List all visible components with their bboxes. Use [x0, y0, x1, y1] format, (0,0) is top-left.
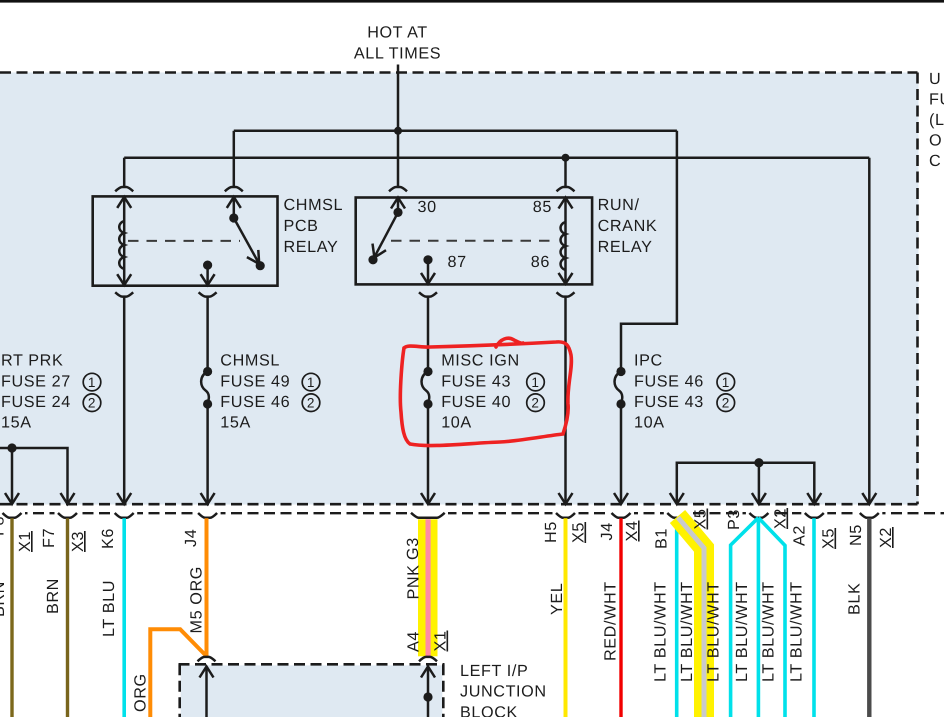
svg-text:LT BLU/WHT: LT BLU/WHT — [678, 581, 696, 682]
svg-text:30: 30 — [418, 198, 437, 216]
wire: IPC fuse to connector J4 (RED/WHT) — [620, 404, 623, 503]
wire: BLK from N5/X2 — [867, 518, 871, 717]
svg-text:FUSE 46: FUSE 46 — [220, 393, 290, 411]
junction: distribution bus center tap — [754, 458, 763, 467]
connector cup: J4 pin — [198, 513, 217, 518]
wire: CHMSL relay output to CHMSL fuse — [206, 297, 209, 372]
wire: drop to CHMSL relay contact pin — [233, 131, 236, 187]
svg-text:RED/WHT: RED/WHT — [602, 581, 620, 661]
svg-text:X2: X2 — [772, 508, 790, 529]
wire: center drop to connector P3 — [758, 463, 761, 503]
svg-text:X1: X1 — [432, 631, 450, 652]
junction: battery feed on upper bus — [394, 127, 402, 135]
connector cup: P3/X2 pin — [749, 513, 768, 518]
wire: RED/WHT from J4/X4 — [619, 518, 622, 717]
wire: drop to CHMSL relay coil — [123, 158, 126, 187]
svg-text:X5: X5 — [820, 528, 838, 549]
svg-text:RELAY: RELAY — [284, 238, 339, 256]
junction: RT PRK split — [7, 443, 16, 452]
svg-text:1: 1 — [531, 375, 539, 390]
svg-text:BRN: BRN — [44, 578, 62, 614]
svg-text:BLOCK: BLOCK — [460, 704, 518, 717]
relay U1 contact arm (pin in, movable contact) — [227, 196, 260, 265]
svg-text:LEFT I/P: LEFT I/P — [460, 662, 528, 680]
connector cup: X1 pin — [3, 513, 22, 518]
LEFT I/P JUNCTION BLOCK (dashed box, blue) — [179, 664, 445, 717]
svg-text:FUSE 24: FUSE 24 — [1, 393, 71, 411]
connector cup: RUN/CRANK relay pin 85 top — [557, 187, 575, 191]
junction block name text — [460, 662, 547, 717]
svg-text:LT BLU/WHT: LT BLU/WHT — [705, 581, 723, 682]
connector cup: G3 pin — [411, 513, 445, 518]
svg-text:P3: P3 — [725, 509, 743, 530]
fuse label: MISC IGN FUSE 43 / FUSE 40 10A — [441, 352, 520, 432]
relay U2 RUN/CRANK RELAY box — [356, 198, 592, 285]
svg-text:15A: 15A — [1, 414, 32, 432]
svg-text:J4: J4 — [598, 522, 616, 540]
svg-text:CRANK: CRANK — [598, 217, 658, 235]
arrow: ORG wire entering junction block — [200, 667, 214, 717]
wire: RUN/CRANK pin 87 to MISC IGN fuse — [427, 297, 430, 372]
svg-text:FUSE 46: FUSE 46 — [634, 373, 704, 391]
wire: lower feed bus (relay coils and BLK output) — [124, 156, 869, 159]
connector cup: N5/X2 pin — [860, 513, 879, 518]
connector cup: CHMSL relay contact top — [225, 187, 243, 191]
wire: RT PRK branch to connector X1 — [11, 448, 14, 503]
arrows: wires leaving fuse block at bottom border — [5, 493, 876, 504]
svg-text:F8: F8 — [0, 516, 8, 536]
wire color labels (rotated) — [0, 564, 864, 712]
junction: PNK circuit node inside junction block — [423, 692, 432, 701]
connector cup: H5/X5 pin — [556, 513, 575, 518]
svg-text:G3: G3 — [404, 537, 422, 560]
wire: CHMSL relay coil to connector K6 — [123, 297, 126, 503]
svg-text:X4: X4 — [623, 521, 641, 542]
svg-text:ALL TIMES: ALL TIMES — [354, 45, 441, 63]
annotation: red circled MISC IGN fuse — [400, 338, 571, 445]
fuse label: IPC FUSE 46 / FUSE 43 10A — [634, 352, 704, 432]
svg-text:M5 ORG: M5 ORG — [188, 566, 206, 633]
svg-text:J4: J4 — [182, 529, 200, 547]
svg-text:IPC: IPC — [634, 352, 663, 370]
svg-text:X2: X2 — [877, 527, 895, 548]
svg-text:LT BLU/WHT: LT BLU/WHT — [788, 581, 806, 682]
connector cup: A2/X5 pin — [805, 513, 824, 518]
wire: upper feed bus (to relay contacts and IPC fuse) — [234, 130, 677, 133]
svg-text:RT PRK: RT PRK — [1, 352, 63, 370]
svg-text:PCB: PCB — [284, 217, 319, 235]
svg-text:K6: K6 — [99, 528, 117, 549]
relay U1 CHMSL PCB RELAY box — [93, 196, 278, 285]
wire: lower bus down to BLK connector N5 — [868, 158, 871, 503]
svg-text:X5: X5 — [692, 509, 710, 530]
wire: M5 ORG from J4 — [205, 518, 209, 656]
wire: PNK from G3 (yellow highlighted) — [418, 519, 438, 656]
svg-text:CHMSL: CHMSL — [284, 196, 344, 214]
svg-text:ORG: ORG — [132, 673, 150, 712]
svg-text:YEL: YEL — [548, 583, 566, 615]
svg-text:H5: H5 — [542, 521, 560, 543]
svg-text:2: 2 — [531, 396, 539, 411]
connector cup: RUN/CRANK pin 86 bottom — [557, 292, 575, 296]
svg-text:FUSE 40: FUSE 40 — [441, 393, 511, 411]
svg-text:CHMSL: CHMSL — [220, 352, 280, 370]
relay U2 name text — [598, 196, 658, 256]
wire: LT BLU/WHT from A2/X5 — [812, 518, 816, 717]
wire: MISC IGN fuse to connector G3 — [427, 404, 430, 503]
fuse F46 IPC symbol — [615, 367, 626, 409]
svg-text:FUSE 43: FUSE 43 — [634, 393, 704, 411]
svg-text:X1: X1 — [16, 531, 34, 552]
svg-text:U: U — [929, 70, 941, 88]
svg-text:BRN: BRN — [0, 581, 8, 617]
svg-text:RELAY: RELAY — [598, 238, 653, 256]
svg-text:BLK: BLK — [846, 583, 864, 615]
connector cup: CHMSL relay output bottom — [199, 292, 217, 296]
wire: LT BLU/WHT from B1/X5 (straight) — [675, 518, 679, 717]
svg-text:10A: 10A — [441, 414, 472, 432]
wire: LT BLU/WHT from P3/X2 (left branch) — [731, 518, 759, 717]
svg-text:FUSE 27: FUSE 27 — [1, 373, 71, 391]
svg-text:C: C — [929, 152, 941, 170]
harness connector face dashed line — [0, 512, 944, 514]
fuse label: RT PRK FUSE 27 / FUSE 24 15A (fuse off frame left) — [1, 352, 71, 432]
svg-text:PNK: PNK — [405, 564, 423, 599]
svg-text:X3: X3 — [69, 531, 87, 552]
svg-text:FU: FU — [929, 91, 944, 109]
wire: drop to RUN/CRANK relay pin 30 — [397, 131, 400, 187]
wire: YEL from H5/X5 — [564, 518, 568, 717]
wire: feed to IPC fuse — [621, 131, 677, 372]
relay U1 internal dashed divider — [128, 240, 240, 242]
svg-text:RUN/: RUN/ — [598, 196, 640, 214]
svg-text:JUNCTION: JUNCTION — [460, 683, 547, 701]
wire: distribution bus to LT BLU/WHT connectors — [677, 463, 815, 503]
arrow: PNK wire entering junction block — [421, 667, 435, 717]
junction: RUN/CRANK coil tap on lower bus — [562, 154, 570, 162]
relay U1 output pin (fixed contact) — [201, 265, 215, 286]
fuse label: CHMSL FUSE 49 / FUSE 46 15A — [220, 352, 290, 432]
relay U1 name text — [284, 196, 344, 256]
svg-text:2: 2 — [88, 396, 96, 411]
svg-text:1: 1 — [307, 375, 315, 390]
svg-text:1: 1 — [722, 375, 730, 390]
pin and connector ID labels (rotated) — [0, 508, 895, 560]
connector cup: RUN/CRANK relay pin 30 top — [389, 187, 407, 191]
relay U2 pin 87 output — [421, 260, 435, 285]
wire: LT BLU/WHT from P3/X2 (right branch) — [758, 518, 785, 717]
relay U2 contact arm pin 30 — [373, 198, 406, 260]
wire: BRN to X1 (dark yellow-brown) — [10, 518, 13, 717]
connector cup: X3 pin — [58, 513, 77, 518]
connector cup: B1/X5 pin — [667, 513, 686, 518]
wire: ORG branch — [150, 629, 206, 717]
svg-text:10A: 10A — [634, 414, 665, 432]
wire: LT BLU from K6 — [122, 518, 126, 717]
fuse F49 CHMSL symbol — [201, 367, 212, 409]
wire: LT BLU/WHT from P3/X2 (center) — [757, 518, 761, 717]
connector cup: CHMSL relay coil bottom — [115, 292, 133, 296]
svg-text:HOT AT: HOT AT — [367, 24, 428, 42]
connector cup: PNK wire into junction block — [419, 657, 437, 661]
svg-text:X5: X5 — [570, 522, 588, 543]
connector cup: RUN/CRANK pin 87 bottom — [419, 292, 437, 296]
node: HOT AT ALL TIMES — [354, 24, 441, 63]
wire: RUN/CRANK pin 86 to connector H5 — [564, 297, 567, 503]
svg-text:MISC IGN: MISC IGN — [441, 352, 520, 370]
connector cup: K6 pin — [115, 513, 134, 518]
svg-text:(L: (L — [929, 111, 944, 129]
svg-text:86: 86 — [531, 253, 550, 271]
wire: CHMSL fuse to connector J4 — [206, 404, 209, 503]
svg-text:B1: B1 — [653, 528, 671, 549]
svg-text:FUSE 49: FUSE 49 — [220, 373, 290, 391]
connector cup: J4/X4 pin — [612, 513, 631, 518]
svg-text:N5: N5 — [847, 524, 865, 546]
fuse F43 MISC IGN symbol — [422, 367, 433, 409]
wire: RT PRK fuse output split — [0, 448, 68, 503]
svg-text:15A: 15A — [220, 414, 251, 432]
svg-text:LT BLU/WHT: LT BLU/WHT — [652, 581, 670, 682]
svg-text:LT BLU/WHT: LT BLU/WHT — [733, 581, 751, 682]
fuse block name text (clipped at right edge) — [929, 70, 944, 170]
svg-text:A2: A2 — [791, 525, 809, 546]
relay U2 internal dashed divider — [391, 240, 552, 242]
svg-text:FUSE 43: FUSE 43 — [441, 373, 511, 391]
wire: drop to RUN/CRANK relay pin 85 — [564, 158, 567, 187]
svg-text:2: 2 — [307, 396, 315, 411]
svg-text:F7: F7 — [40, 528, 58, 548]
svg-text:2: 2 — [722, 396, 730, 411]
svg-text:LT BLU: LT BLU — [100, 580, 118, 637]
relay U1 coil — [117, 196, 131, 285]
connector cup: CHMSL relay coil top — [115, 187, 133, 191]
svg-text:87: 87 — [448, 253, 467, 271]
wire: BRN to X3 — [66, 518, 69, 717]
underhood fuse block (dashed outline box, blue) — [0, 73, 919, 505]
svg-text:A4: A4 — [405, 631, 423, 652]
svg-text:LT BLU/WHT: LT BLU/WHT — [760, 581, 778, 682]
relay U2 pin number labels — [418, 198, 553, 271]
wire: battery feed from HOT AT ALL TIMES — [397, 65, 400, 131]
wire: LT BLU/WHT from B1/X5 (yellow highlighted branch) — [678, 517, 705, 717]
svg-text:1: 1 — [88, 375, 96, 390]
svg-text:O: O — [929, 132, 942, 150]
connector cup: ORG wire into junction block — [198, 657, 216, 661]
relay U2 coil pins 85/86 — [559, 198, 573, 285]
svg-text:85: 85 — [533, 198, 552, 216]
